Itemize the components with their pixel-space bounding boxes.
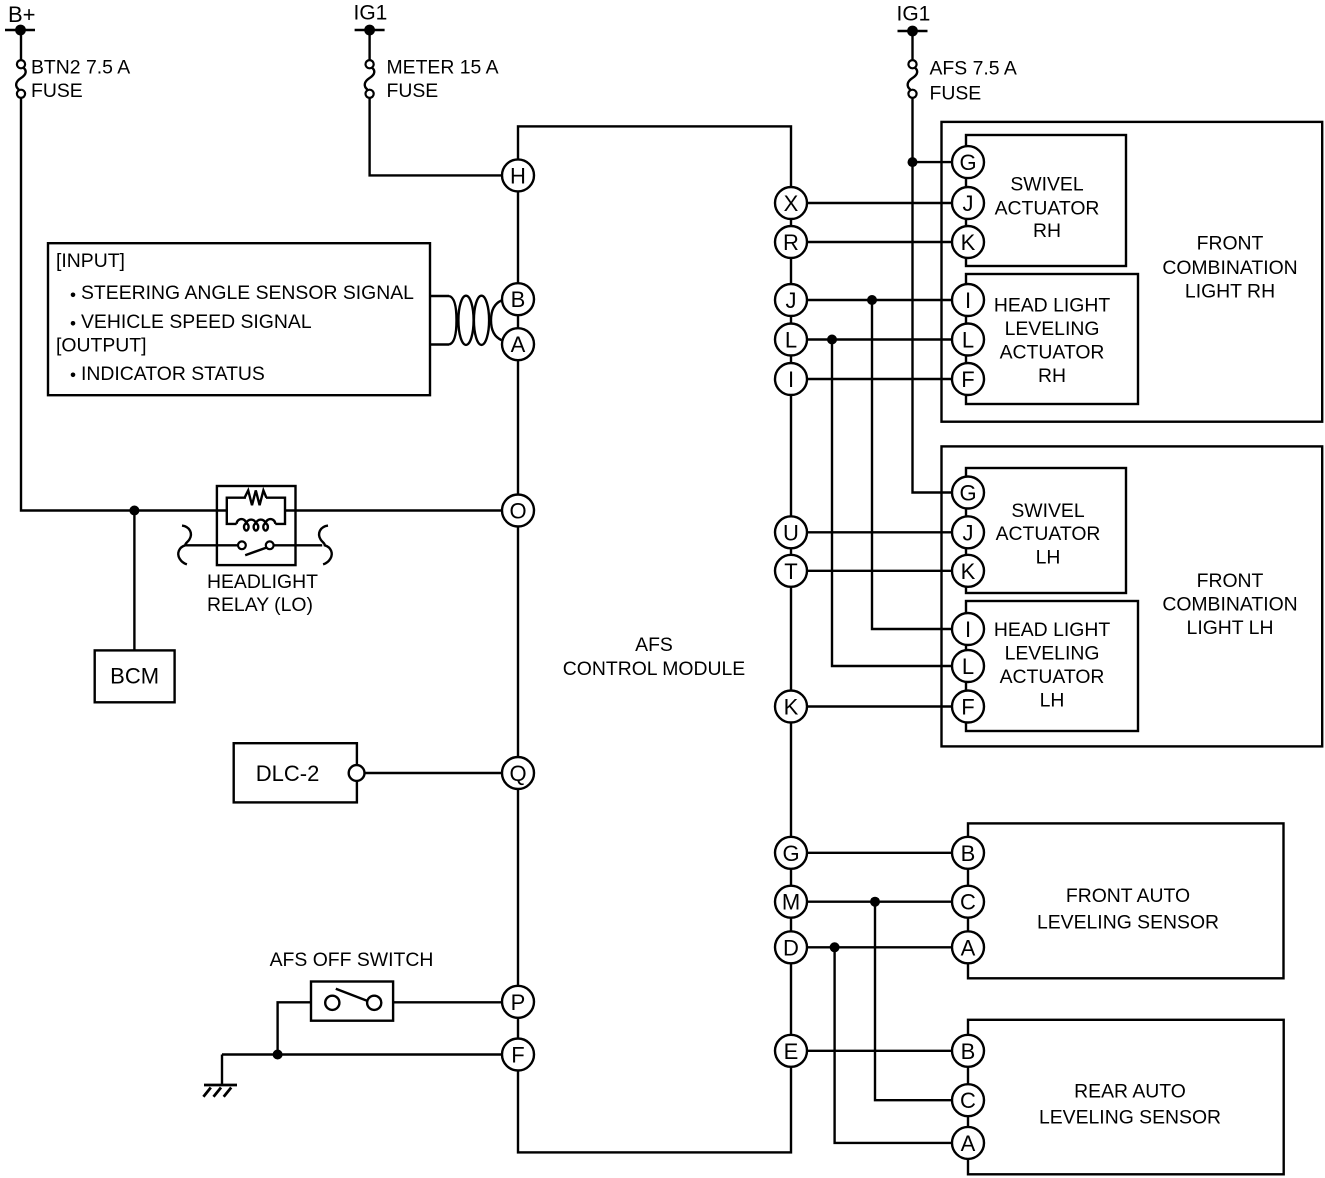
svg-text:P: P xyxy=(511,990,526,1015)
svg-text:B+: B+ xyxy=(8,2,36,27)
node IG1 left terminal bar xyxy=(355,29,385,31)
wire AFS OFF SWITCH to pin P xyxy=(393,1001,503,1003)
svg-text:SWIVEL: SWIVEL xyxy=(1010,173,1083,195)
pin E xyxy=(775,1035,807,1067)
wire branch to BCM xyxy=(133,511,135,651)
svg-text:ACTUATOR: ACTUATOR xyxy=(996,523,1101,545)
svg-text:LEVELING SENSOR: LEVELING SENSOR xyxy=(1039,1106,1221,1128)
svg-text:A: A xyxy=(511,332,526,357)
svg-text:R: R xyxy=(783,230,799,255)
svg-text:HEAD LIGHT: HEAD LIGHT xyxy=(994,619,1111,641)
svg-text:B: B xyxy=(511,287,526,312)
svg-text:LEVELING SENSOR: LEVELING SENSOR xyxy=(1037,911,1219,933)
relay K1 contact lever xyxy=(245,548,266,556)
wire pin E to rear sensor pin B xyxy=(791,1050,968,1052)
bullet vehicle speed xyxy=(71,321,76,326)
pin L xyxy=(775,324,807,356)
svg-text:HEAD LIGHT: HEAD LIGHT xyxy=(994,295,1111,317)
wire IG1 vertical above AFS fuse xyxy=(911,31,913,61)
svg-text:RH: RH xyxy=(1038,365,1066,387)
svg-text:L: L xyxy=(785,328,797,353)
node B+ junction dot xyxy=(15,25,26,36)
svg-text:LEVELING: LEVELING xyxy=(1005,643,1100,665)
DLC-2 connector circle xyxy=(349,765,365,781)
svg-text:IG1: IG1 xyxy=(897,3,931,26)
svg-text:VEHICLE SPEED SIGNAL: VEHICLE SPEED SIGNAL xyxy=(81,311,312,333)
svg-text:F: F xyxy=(961,367,974,392)
svg-text:A: A xyxy=(961,1131,976,1156)
pin X xyxy=(775,187,807,219)
wire stub input box to twisted pair top xyxy=(430,295,449,297)
svg-text:I: I xyxy=(965,288,971,313)
svg-text:C: C xyxy=(960,890,976,915)
front sensor pin A xyxy=(952,931,984,963)
svg-text:DLC-2: DLC-2 xyxy=(256,761,320,786)
relay K1 outer box xyxy=(217,486,296,565)
wire DLC-2 to pin Q xyxy=(365,772,504,774)
svg-text:FUSE: FUSE xyxy=(31,80,83,102)
pin Q xyxy=(502,757,534,789)
pin H xyxy=(502,159,534,191)
front combination light LH box xyxy=(942,446,1323,746)
svg-text:D: D xyxy=(783,935,799,960)
svg-text:K: K xyxy=(961,230,976,255)
svg-text:F: F xyxy=(511,1043,524,1068)
wire AFS fuse down to G LH row xyxy=(913,98,953,493)
svg-text:FRONT AUTO: FRONT AUTO xyxy=(1066,885,1190,907)
switch SW1 lever xyxy=(336,989,367,1001)
inductor coil element in relay xyxy=(237,519,276,524)
wire branch M row down to rear sensor pin C xyxy=(875,902,968,1100)
front combination light RH box xyxy=(942,122,1323,422)
svg-text:I: I xyxy=(788,367,794,392)
junction dot J row branch xyxy=(867,295,877,305)
svg-text:COMBINATION: COMBINATION xyxy=(1162,257,1297,279)
fuse BTN2 7.5 A element xyxy=(16,68,26,90)
DLC-2 box xyxy=(234,743,357,802)
svg-text:X: X xyxy=(784,191,799,216)
svg-text:FUSE: FUSE xyxy=(930,83,982,105)
svg-text:LIGHT LH: LIGHT LH xyxy=(1187,617,1274,639)
wire B+ vertical below fuse down to O row xyxy=(21,98,227,511)
wire pin U to swivel LH pin J xyxy=(791,531,968,533)
svg-text:BCM: BCM xyxy=(110,664,159,689)
junction dot L row branch xyxy=(827,335,837,345)
wire stub input box to twisted pair bottom xyxy=(430,343,449,345)
leveling actuator RH pin F xyxy=(952,363,984,395)
junction dot B+ line to BCM xyxy=(129,506,139,516)
svg-text:LIGHT RH: LIGHT RH xyxy=(1185,280,1275,302)
head light leveling actuator LH box xyxy=(966,601,1138,731)
wire IG1 vertical above METER fuse xyxy=(368,30,370,61)
svg-text:E: E xyxy=(784,1039,799,1064)
svg-text:RELAY (LO): RELAY (LO) xyxy=(207,594,313,616)
switch SW1 AFS OFF SWITCH box xyxy=(311,982,393,1021)
front sensor pin C xyxy=(952,886,984,918)
relay K1 coil frame with resistor and inductor xyxy=(227,498,285,524)
pin M xyxy=(775,886,807,918)
svg-text:CONTROL MODULE: CONTROL MODULE xyxy=(563,658,745,680)
svg-text:FRONT: FRONT xyxy=(1197,233,1264,255)
svg-text:L: L xyxy=(962,328,974,353)
wire pin L to leveling RH pin L xyxy=(791,338,968,340)
pin A xyxy=(502,328,534,360)
leveling actuator RH pin L xyxy=(952,324,984,356)
leveling actuator LH pin I xyxy=(952,613,984,645)
svg-text:ACTUATOR: ACTUATOR xyxy=(1000,666,1105,688)
wire relay switch row left segment xyxy=(185,544,238,546)
swivel actuator RH pin J xyxy=(952,187,984,219)
fuse METER 15 A element xyxy=(365,68,375,90)
svg-text:SWIVEL: SWIVEL xyxy=(1011,500,1084,522)
svg-text:C: C xyxy=(960,1088,976,1113)
head light leveling actuator RH box xyxy=(966,274,1138,404)
svg-text:REAR AUTO: REAR AUTO xyxy=(1074,1080,1186,1102)
svg-text:T: T xyxy=(784,559,797,584)
node B+ terminal bar xyxy=(5,29,35,31)
node IG1 left junction dot xyxy=(364,25,375,36)
svg-text:AFS 7.5 A: AFS 7.5 A xyxy=(930,58,1017,80)
front sensor pin B xyxy=(952,837,984,869)
svg-text:LH: LH xyxy=(1036,547,1061,569)
svg-text:COMBINATION: COMBINATION xyxy=(1162,594,1297,616)
rear sensor pin B xyxy=(952,1035,984,1067)
wire ground row to pin F xyxy=(222,1053,503,1055)
pin G xyxy=(775,837,807,869)
fuse BTN2 terminal circles xyxy=(17,60,25,98)
svg-text:AFS OFF SWITCH: AFS OFF SWITCH xyxy=(270,949,434,971)
svg-text:[OUTPUT]: [OUTPUT] xyxy=(56,335,147,357)
pin O xyxy=(502,495,534,527)
svg-text:O: O xyxy=(509,499,526,524)
svg-text:FUSE: FUSE xyxy=(387,80,439,102)
bullet steering angle xyxy=(71,293,76,298)
wire pin M to front sensor pin C xyxy=(791,901,968,903)
fuse METER terminal circles xyxy=(366,60,374,98)
wire AFS OFF SWITCH left branch down to F row xyxy=(278,1002,311,1054)
pin R xyxy=(775,226,807,258)
svg-text:J: J xyxy=(963,520,974,545)
svg-text:ACTUATOR: ACTUATOR xyxy=(1000,341,1105,363)
svg-text:ACTUATOR: ACTUATOR xyxy=(995,197,1100,219)
pin I xyxy=(775,363,807,395)
wire pin R to swivel RH pin K xyxy=(791,241,968,243)
svg-text:L: L xyxy=(962,654,974,679)
wire down to ground xyxy=(221,1055,223,1086)
svg-text:G: G xyxy=(959,481,976,506)
svg-text:K: K xyxy=(961,559,976,584)
wire pin T to swivel LH pin K xyxy=(791,570,968,572)
svg-text:A: A xyxy=(961,935,976,960)
rear sensor pin C xyxy=(952,1084,984,1116)
swivel actuator LH pin G xyxy=(952,477,984,509)
swivel actuator LH pin J xyxy=(952,516,984,548)
junction dot D row branch xyxy=(830,942,840,952)
wire branch D row down to rear sensor pin A xyxy=(835,947,968,1143)
wire relay switch row right segment xyxy=(274,544,323,546)
svg-text:J: J xyxy=(963,191,974,216)
rear sensor pin A xyxy=(952,1127,984,1159)
svg-text:B: B xyxy=(961,841,976,866)
node IG1 right junction dot xyxy=(907,26,918,37)
pin D xyxy=(775,931,807,963)
wire-break symbol right of relay xyxy=(319,526,332,565)
svg-text:IG1: IG1 xyxy=(354,2,388,25)
pin B xyxy=(502,283,534,315)
wire relay output to pin O xyxy=(285,509,503,511)
svg-text:K: K xyxy=(784,695,799,720)
twisted pair coil to pins B and A xyxy=(449,296,457,345)
pin P xyxy=(502,986,534,1018)
svg-text:INDICATOR STATUS: INDICATOR STATUS xyxy=(81,363,265,385)
bullet indicator status xyxy=(71,373,76,378)
swivel actuator RH pin K xyxy=(952,226,984,258)
wire-break symbol left of relay xyxy=(178,526,191,565)
svg-text:METER 15 A: METER 15 A xyxy=(387,56,499,78)
leveling actuator LH pin F xyxy=(952,691,984,723)
svg-text:AFS: AFS xyxy=(635,634,673,656)
swivel actuator LH pin K xyxy=(952,555,984,587)
rear auto leveling sensor box xyxy=(968,1020,1284,1175)
wire pin G to front sensor pin B xyxy=(791,852,968,854)
svg-text:RH: RH xyxy=(1033,220,1061,242)
pin U xyxy=(775,516,807,548)
wire junction to swivel RH pin G xyxy=(913,161,953,163)
svg-text:M: M xyxy=(782,890,800,915)
junction dot switch branch on F row xyxy=(273,1050,283,1060)
svg-text:LEVELING: LEVELING xyxy=(1005,318,1100,340)
pin F xyxy=(502,1039,534,1071)
wire METER fuse to pin H xyxy=(370,98,503,176)
wire pin X to swivel RH pin J xyxy=(791,202,968,204)
op-amp U1: AFS control module outline xyxy=(518,126,791,1152)
pin J xyxy=(775,284,807,316)
wire branch L row down to leveling LH pin L xyxy=(832,340,968,667)
wire pin D to front sensor pin A xyxy=(791,946,968,948)
svg-text:STEERING ANGLE SENSOR SIGNAL: STEERING ANGLE SENSOR SIGNAL xyxy=(81,282,414,304)
resistor element in relay xyxy=(245,490,267,505)
svg-text:HEADLIGHT: HEADLIGHT xyxy=(207,571,318,593)
BCM box xyxy=(95,650,175,702)
svg-text:FRONT: FRONT xyxy=(1197,570,1264,592)
svg-text:[INPUT]: [INPUT] xyxy=(56,250,125,272)
switch SW1 contact circles xyxy=(325,996,339,1010)
front auto leveling sensor box xyxy=(968,823,1284,978)
svg-text:J: J xyxy=(786,288,797,313)
wire B+ vertical above fuse xyxy=(20,30,22,61)
svg-text:U: U xyxy=(783,520,799,545)
node IG1 right terminal bar xyxy=(898,30,928,32)
wire pin K to leveling LH pin F xyxy=(791,705,968,707)
svg-text:G: G xyxy=(959,150,976,175)
pin K xyxy=(775,691,807,723)
fuse AFS 7.5 A element xyxy=(908,68,918,90)
svg-text:BTN2 7.5 A: BTN2 7.5 A xyxy=(31,56,130,78)
svg-text:F: F xyxy=(961,695,974,720)
svg-text:Q: Q xyxy=(509,761,526,786)
fuse AFS terminal circles xyxy=(908,60,916,98)
input/output description box xyxy=(48,243,430,395)
leveling actuator LH pin L xyxy=(952,650,984,682)
swivel actuator RH pin G xyxy=(952,146,984,178)
svg-text:LH: LH xyxy=(1040,690,1065,712)
svg-text:H: H xyxy=(510,163,526,188)
wire branch J row down to leveling LH pin I xyxy=(872,300,968,629)
junction dot AFS fuse line to swivel RH G xyxy=(908,157,918,167)
ground chassis symbol xyxy=(203,1085,237,1097)
svg-text:I: I xyxy=(965,617,971,642)
svg-text:B: B xyxy=(961,1039,976,1064)
swivel actuator RH box xyxy=(966,135,1126,266)
relay contact circles xyxy=(238,541,274,549)
junction dot M row branch xyxy=(870,897,880,907)
leveling actuator RH pin I xyxy=(952,284,984,316)
pin T xyxy=(775,555,807,587)
wire pin J to leveling RH pin I xyxy=(791,299,968,301)
svg-text:G: G xyxy=(782,841,799,866)
swivel actuator LH box xyxy=(966,468,1126,593)
wire pin I to leveling RH pin F xyxy=(791,378,968,380)
